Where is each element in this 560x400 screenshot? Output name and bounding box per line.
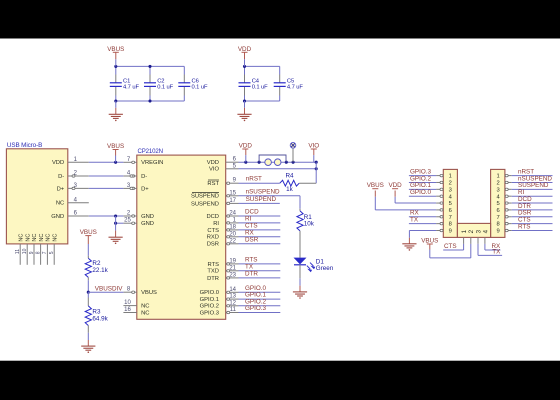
svg-text:3: 3 — [449, 187, 452, 193]
svg-text:NC: NC — [52, 234, 58, 242]
svg-text:20: 20 — [229, 231, 236, 237]
svg-text:9: 9 — [29, 251, 35, 254]
svg-text:4.7 uF: 4.7 uF — [123, 85, 139, 91]
svg-text:0.1 uF: 0.1 uF — [157, 85, 173, 91]
svg-text:5: 5 — [449, 201, 452, 207]
svg-text:VBUS: VBUS — [107, 46, 124, 53]
svg-text:16: 16 — [124, 307, 131, 313]
svg-text:VBUS: VBUS — [80, 229, 97, 236]
svg-text:9: 9 — [449, 229, 452, 235]
svg-text:4: 4 — [482, 229, 489, 233]
svg-text:GPIO.1: GPIO.1 — [200, 297, 219, 303]
svg-text:10k: 10k — [304, 221, 315, 228]
svg-text:Green: Green — [316, 265, 334, 272]
svg-text:GND: GND — [141, 221, 154, 227]
svg-text:7: 7 — [496, 215, 499, 221]
svg-text:17: 17 — [229, 198, 236, 204]
svg-text:4.7 uF: 4.7 uF — [287, 85, 303, 91]
svg-text:GPIO.3: GPIO.3 — [245, 305, 266, 312]
svg-text:CP2102N: CP2102N — [138, 148, 163, 155]
svg-text:TX: TX — [410, 217, 419, 224]
svg-text:VREGIN: VREGIN — [141, 160, 163, 166]
svg-text:1: 1 — [461, 229, 468, 233]
svg-text:SUSPEND: SUSPEND — [246, 196, 277, 203]
svg-text:TX: TX — [245, 263, 254, 270]
svg-text:NC: NC — [32, 234, 38, 242]
svg-text:RTS: RTS — [208, 262, 220, 268]
svg-text:RX: RX — [245, 229, 255, 236]
svg-text:GPIO.0: GPIO.0 — [200, 290, 219, 296]
svg-text:0.1 uF: 0.1 uF — [192, 85, 208, 91]
svg-text:NC: NC — [25, 234, 31, 242]
svg-text:14: 14 — [229, 287, 236, 293]
svg-text:DTR: DTR — [207, 276, 219, 282]
svg-text:DCD: DCD — [206, 214, 219, 220]
svg-text:USB Micro-B: USB Micro-B — [7, 142, 42, 149]
svg-text:25: 25 — [124, 218, 131, 224]
svg-text:NC: NC — [18, 234, 24, 242]
svg-text:5: 5 — [496, 201, 499, 207]
svg-text:5: 5 — [49, 251, 55, 254]
svg-text:19: 19 — [229, 258, 236, 264]
svg-text:D-: D- — [58, 174, 64, 180]
svg-text:VDD: VDD — [207, 160, 219, 166]
svg-text:7: 7 — [42, 251, 48, 254]
svg-text:D+: D+ — [57, 186, 65, 192]
svg-text:3: 3 — [496, 187, 499, 193]
svg-text:8: 8 — [35, 251, 41, 254]
svg-text:2: 2 — [449, 181, 452, 187]
svg-text:TXD: TXD — [207, 269, 219, 275]
svg-text:10: 10 — [124, 300, 131, 306]
svg-text:6: 6 — [449, 208, 452, 214]
svg-text:13: 13 — [229, 294, 236, 300]
svg-text:24: 24 — [229, 211, 236, 217]
svg-text:2: 2 — [468, 229, 475, 233]
svg-text:RI: RI — [245, 216, 252, 223]
svg-text:RXD: RXD — [207, 235, 219, 241]
svg-text:VIO: VIO — [308, 143, 319, 150]
svg-text:22: 22 — [229, 238, 236, 244]
svg-text:GND: GND — [51, 214, 64, 220]
svg-text:VIO: VIO — [209, 167, 219, 173]
svg-text:10: 10 — [22, 248, 28, 254]
svg-text:11: 11 — [15, 249, 21, 254]
svg-text:C4: C4 — [252, 78, 260, 84]
svg-text:NC: NC — [39, 234, 45, 242]
svg-text:18: 18 — [229, 224, 236, 230]
svg-text:8: 8 — [496, 222, 499, 228]
svg-text:23: 23 — [229, 272, 236, 278]
svg-text:SUSPEND: SUSPEND — [191, 201, 219, 207]
svg-text:C2: C2 — [157, 78, 164, 84]
svg-text:NC: NC — [46, 234, 52, 242]
svg-text:2: 2 — [496, 181, 499, 187]
svg-text:DTR: DTR — [245, 271, 258, 278]
svg-text:CTS: CTS — [444, 243, 457, 250]
svg-text:12: 12 — [229, 300, 236, 306]
svg-text:NC: NC — [141, 310, 149, 316]
svg-text:NC: NC — [141, 304, 149, 310]
svg-text:RTS: RTS — [518, 223, 530, 230]
svg-text:C5: C5 — [287, 78, 294, 84]
svg-text:SUSPEND: SUSPEND — [191, 194, 219, 200]
svg-text:22.1k: 22.1k — [92, 267, 108, 274]
svg-text:C1: C1 — [123, 78, 130, 84]
svg-text:8: 8 — [449, 222, 452, 228]
svg-text:VDD: VDD — [52, 160, 64, 166]
svg-text:VBUS: VBUS — [421, 238, 438, 245]
svg-text:R2: R2 — [92, 260, 101, 267]
svg-text:0.1 uF: 0.1 uF — [252, 85, 268, 91]
svg-text:VBUS: VBUS — [367, 182, 384, 189]
svg-text:1: 1 — [449, 174, 452, 180]
svg-text:D-: D- — [141, 174, 147, 180]
svg-text:GPIO.3: GPIO.3 — [200, 310, 219, 316]
svg-text:D+: D+ — [141, 186, 149, 192]
svg-text:7: 7 — [449, 215, 452, 221]
svg-text:VDD: VDD — [388, 182, 402, 189]
svg-text:TX: TX — [492, 248, 501, 255]
svg-text:1: 1 — [496, 174, 499, 180]
svg-text:VBUS: VBUS — [107, 143, 124, 150]
svg-text:CTS: CTS — [207, 228, 219, 234]
svg-text:1k: 1k — [286, 186, 294, 193]
svg-text:VBUSDIV: VBUSDIV — [95, 285, 123, 292]
svg-text:6: 6 — [496, 208, 499, 214]
svg-text:GND: GND — [141, 214, 154, 220]
svg-text:DSR: DSR — [207, 242, 219, 248]
svg-text:15: 15 — [229, 190, 236, 196]
svg-text:nRST: nRST — [246, 176, 262, 183]
svg-text:9: 9 — [496, 229, 499, 235]
svg-text:GPIO.0: GPIO.0 — [410, 189, 431, 196]
svg-text:VBUS: VBUS — [141, 290, 157, 296]
svg-text:nSUSPEND: nSUSPEND — [246, 188, 280, 195]
svg-text:RI: RI — [213, 221, 219, 227]
svg-text:RST: RST — [207, 181, 219, 187]
svg-text:DSR: DSR — [245, 236, 259, 243]
svg-text:11: 11 — [230, 307, 237, 313]
svg-text:VDD: VDD — [238, 46, 252, 53]
svg-text:C6: C6 — [192, 78, 199, 84]
svg-text:21: 21 — [229, 265, 236, 271]
svg-text:VDD: VDD — [239, 143, 253, 150]
svg-text:GPIO.2: GPIO.2 — [200, 304, 219, 310]
svg-text:R4: R4 — [285, 173, 294, 180]
svg-text:NC: NC — [56, 201, 64, 207]
svg-text:64.9k: 64.9k — [92, 316, 108, 323]
